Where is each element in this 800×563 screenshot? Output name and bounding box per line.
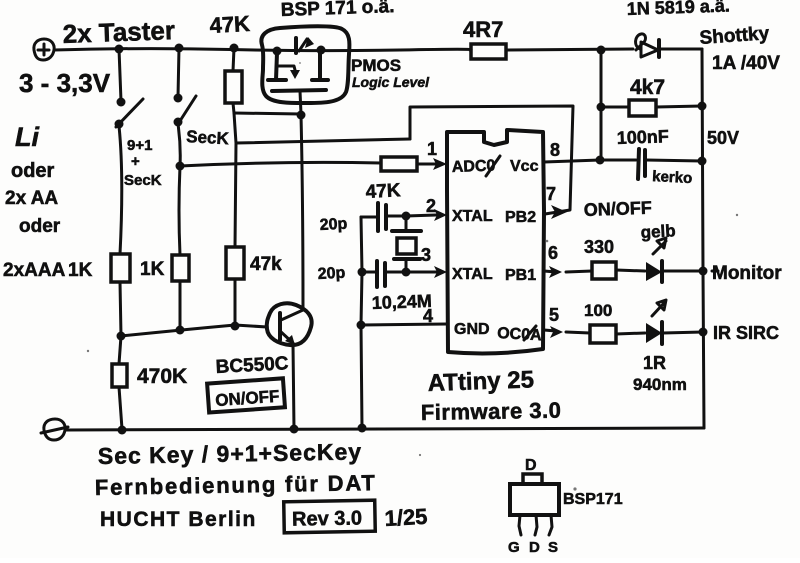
node base-470K (117, 332, 126, 341)
svg-text:3: 3 (421, 245, 431, 265)
wire 47K to gate node (234, 113, 301, 114)
ON/OFF box BC550 (207, 378, 285, 412)
transistor Q2 BC550C (267, 303, 312, 429)
svg-text:Sec Key / 9+1+SecKey: Sec Key / 9+1+SecKey (98, 438, 363, 469)
node Vcc-risercap (596, 156, 605, 165)
resistor R 100 (590, 325, 616, 343)
capacitor C 20p (lower) (363, 261, 406, 287)
diode D1 1N5819 (636, 34, 702, 57)
resistor R 4k7 (601, 100, 702, 116)
svg-text:kerko: kerko (652, 168, 693, 187)
svg-text:1A /40V: 1A /40V (712, 53, 780, 74)
wire Vcc pin8 line (544, 160, 636, 162)
wire pin6 PB1 to Monitor (544, 270, 718, 272)
svg-text:Logic Level: Logic Level (352, 74, 430, 90)
node rail-47K (230, 44, 239, 53)
svg-text:9+1: 9+1 (127, 137, 152, 154)
svg-text:IR SIRC: IR SIRC (713, 323, 779, 343)
svg-text:GND: GND (454, 321, 490, 338)
svg-text:47K: 47K (365, 180, 401, 203)
node crystal top (402, 212, 411, 221)
resistor R 47K (ADC series) (381, 157, 417, 171)
node rail-taster1 (115, 45, 124, 54)
resistor R 4R7 (471, 44, 633, 59)
node gnd-470K (118, 426, 127, 435)
svg-text:1/25: 1/25 (384, 504, 428, 531)
svg-text:SecK: SecK (186, 127, 230, 148)
svg-text:5: 5 (549, 305, 559, 325)
wire gate vertical to BC550 collector (301, 115, 303, 310)
node gate junction (297, 111, 306, 120)
wire top rail V+ (54, 49, 471, 51)
svg-text:4R7: 4R7 (463, 17, 503, 42)
resistor R 470K (112, 336, 127, 429)
svg-text:7: 7 (546, 184, 556, 204)
svg-text:S: S (548, 539, 558, 556)
svg-text:PB2: PB2 (505, 209, 536, 226)
svg-text:50V: 50V (707, 128, 739, 148)
BSP171 package drawing (508, 457, 623, 556)
svg-text:XTAL: XTAL (452, 208, 493, 225)
wire resistor to pin1 (417, 163, 437, 166)
svg-text:XTAL: XTAL (452, 266, 493, 283)
plus terminal V+ (34, 39, 54, 60)
node gnd-emitter (290, 425, 299, 434)
scan specks (87, 62, 738, 491)
svg-text:PMOS: PMOS (351, 56, 401, 75)
pin3 arrowhead (434, 266, 447, 278)
wire pin4 GND (361, 324, 447, 325)
pin5 arrowhead (550, 326, 563, 338)
svg-text:4k7: 4k7 (630, 76, 665, 99)
resistor R 1K (left) (111, 254, 130, 336)
pin6 arrowhead (549, 266, 562, 278)
svg-text:940nm: 940nm (633, 375, 687, 394)
svg-text:Vcc: Vcc (510, 158, 539, 175)
IC U1 ATtiny25 outline with notch (447, 130, 544, 353)
crystal X1 (392, 216, 421, 272)
LED D2 gelb (646, 238, 666, 282)
svg-text:PB1: PB1 (505, 267, 536, 284)
svg-text:ON/OFF: ON/OFF (583, 198, 652, 220)
ground terminal (41, 419, 68, 440)
svg-text:4: 4 (423, 306, 433, 326)
svg-text:20p: 20p (319, 216, 348, 234)
node crystal bottom (402, 268, 411, 277)
svg-text:330: 330 (584, 237, 614, 257)
node gnd-crystal (358, 424, 367, 433)
node gnd line (357, 321, 366, 330)
svg-text:D: D (525, 457, 537, 474)
svg-text:HUCHT Berlin: HUCHT Berlin (100, 508, 257, 531)
resistor R 1K (second) (172, 255, 189, 329)
svg-text:ATtiny 25: ATtiny 25 (427, 366, 534, 397)
svg-text:2x AA: 2x AA (5, 188, 58, 209)
transistor Q1 internals (268, 37, 328, 114)
resistor R 47k (lower) (226, 247, 244, 325)
wire gate node to PB2 loop (236, 139, 410, 143)
svg-text:Fernbedienung für DAT: Fernbedienung für DAT (95, 470, 377, 500)
node base-47k (231, 322, 240, 331)
pin1 arrowhead (433, 158, 447, 170)
node taster2-ADC line (176, 162, 185, 171)
svg-text:6: 6 (548, 243, 558, 263)
wire pin5 OC0A to IR (544, 330, 703, 334)
svg-text:Monitor: Monitor (712, 263, 782, 284)
wire pin2 XTAL (406, 215, 436, 216)
svg-text:1K: 1K (68, 260, 93, 281)
svg-text:8: 8 (550, 140, 560, 160)
node 4k7 left (597, 103, 606, 112)
node diode branch (597, 46, 606, 55)
Rev 3.0 box (284, 500, 376, 533)
svg-text:3 - 3,3V: 3 - 3,3V (19, 68, 111, 98)
svg-text:100: 100 (584, 301, 612, 320)
svg-text:1: 1 (427, 139, 437, 159)
svg-text:47K: 47K (209, 11, 251, 38)
op-amp blob: transistor Q1 BSP171 PMOS outline (261, 26, 349, 103)
wire caps left vertical (361, 217, 362, 428)
svg-text:Li: Li (15, 122, 39, 152)
svg-text:oder: oder (19, 216, 61, 237)
pin name ADC0 (452, 156, 500, 176)
svg-text:Firmware 3.0: Firmware 3.0 (421, 398, 562, 425)
wire ADC0 line from taster2 node (180, 162, 381, 166)
svg-text:1K: 1K (140, 259, 165, 280)
wire PB2 loop top (410, 106, 573, 214)
svg-text:+: + (131, 153, 140, 170)
node cap right (698, 157, 707, 166)
wire right vertical rail (702, 49, 704, 428)
svg-text:gelb: gelb (640, 221, 676, 242)
wire 47K column down (234, 113, 236, 247)
svg-text:D: D (529, 539, 540, 556)
node caps mid (358, 268, 367, 277)
pin2 arrowhead (434, 209, 447, 221)
svg-text:100nF: 100nF (616, 126, 669, 148)
svg-text:47k: 47k (250, 254, 282, 275)
svg-text:2x Taster: 2x Taster (62, 15, 175, 49)
node rail-taster2 (175, 44, 184, 53)
node 4k7 right (698, 102, 707, 111)
node base-1K2 (176, 326, 185, 335)
node IR junction (699, 328, 708, 337)
svg-text:BSP171: BSP171 (563, 491, 623, 508)
wire pin3 XTAL (406, 271, 436, 274)
pin name OC0A (497, 325, 543, 344)
LED D3 IR 940nm (646, 300, 666, 344)
svg-text:20p: 20p (317, 265, 346, 283)
capacitor C 100nF (638, 149, 702, 179)
svg-text:Rev 3.0: Rev 3.0 (292, 507, 362, 530)
capacitor C 20p (upper) (361, 203, 406, 231)
svg-text:oder: oder (11, 160, 55, 182)
svg-text:2xAAA: 2xAAA (3, 260, 66, 281)
node Monitor junction (699, 267, 708, 276)
switch S2 SecK (174, 48, 197, 255)
svg-text:G: G (508, 539, 520, 556)
pin7 arrowhead (551, 205, 567, 219)
svg-text:1R: 1R (643, 353, 666, 373)
svg-text:BC550C: BC550C (215, 353, 289, 378)
svg-text:2: 2 (426, 196, 436, 216)
resistor R 47K (top pullup) (225, 48, 242, 113)
wire ground rail (66, 428, 704, 430)
resistor R 330 (592, 262, 616, 279)
wire 4k7 branch vertical (600, 50, 603, 159)
svg-text:SecK: SecK (124, 172, 162, 189)
switch S1 9+1+SecK (115, 49, 144, 254)
wire base line (121, 325, 267, 336)
svg-text:470K: 470K (137, 365, 187, 388)
